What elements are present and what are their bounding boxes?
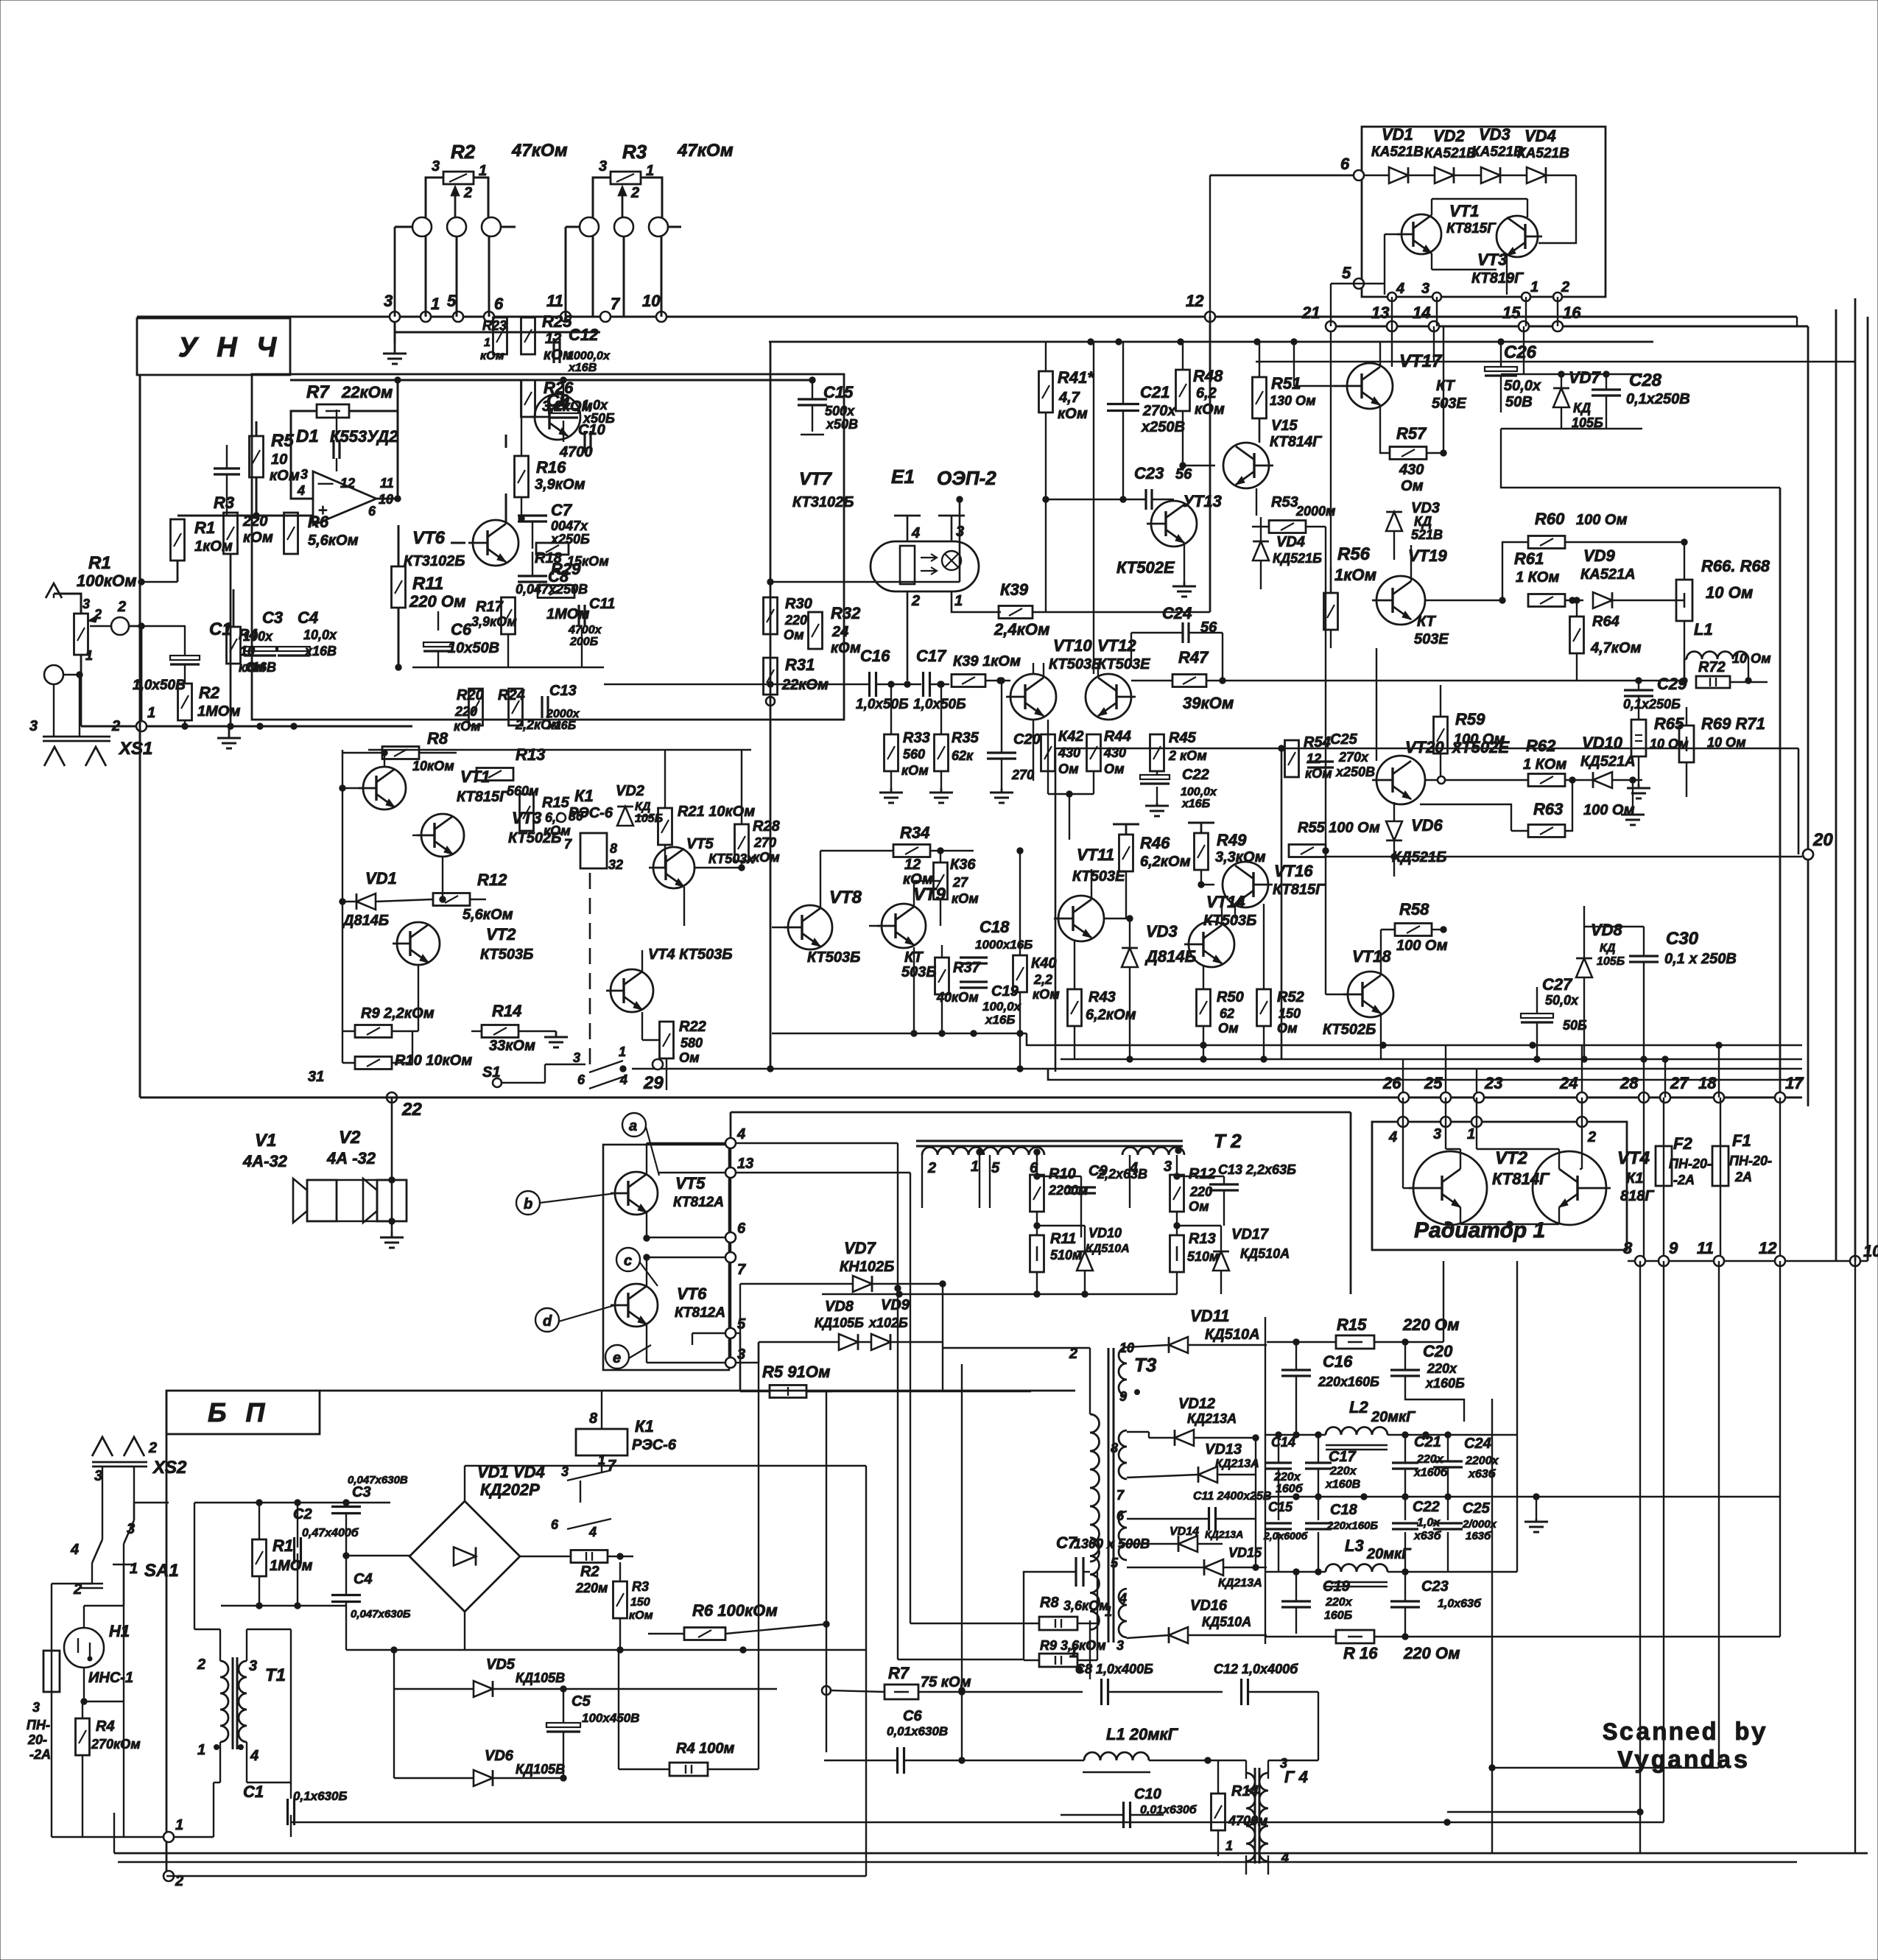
transistor VT15 KT814G <box>1223 443 1269 488</box>
svg-text:18: 18 <box>1698 1074 1717 1092</box>
svg-text:VD14: VD14 <box>1170 1525 1199 1538</box>
node 14 <box>1429 321 1439 331</box>
svg-text:1МОм: 1МОм <box>546 606 590 622</box>
ground near node 3 <box>394 317 396 343</box>
svg-text:0,1х250В: 0,1х250В <box>1626 391 1690 407</box>
node 1 input <box>136 721 147 731</box>
svg-text:16: 16 <box>1563 303 1581 322</box>
wire R2 wiper arrow <box>454 190 457 218</box>
wire vd4 r53 <box>1260 517 1262 541</box>
pointer circle d <box>535 1308 559 1332</box>
diode VD1 D814 <box>356 893 376 910</box>
resistor R16 220 <box>1336 1630 1374 1643</box>
ground filter <box>1536 1497 1537 1519</box>
svg-text:R2: R2 <box>580 1564 599 1580</box>
resistor R6 5.6k <box>284 513 298 554</box>
resistor R3 220k <box>224 513 238 554</box>
svg-text:КА521В: КА521В <box>1424 146 1477 161</box>
svg-text:1: 1 <box>1225 1838 1233 1853</box>
lamp H1 neon <box>64 1628 104 1668</box>
wire r66 col <box>1684 542 1685 580</box>
svg-text:3: 3 <box>384 292 393 310</box>
svg-text:КТ: КТ <box>1417 614 1437 630</box>
wire c6 <box>437 611 439 630</box>
wire UNCH bottom edge <box>140 1097 1802 1099</box>
svg-text:R1: R1 <box>194 519 215 537</box>
svg-text:32: 32 <box>608 857 623 872</box>
svg-text:R7: R7 <box>306 382 330 402</box>
svg-text:3: 3 <box>561 1464 569 1479</box>
svg-text:220: 220 <box>454 704 477 719</box>
wire tone2 <box>563 380 564 409</box>
wire vd5 <box>394 1688 474 1690</box>
svg-text:Ом: Ом <box>1218 1021 1239 1036</box>
resistor R39 2.4k <box>999 606 1033 619</box>
capacitor C3 <box>244 647 276 651</box>
wire vd13 <box>1127 1475 1198 1478</box>
svg-text:R24: R24 <box>498 687 525 703</box>
svg-text:C12 1,0х400б: C12 1,0х400б <box>1214 1662 1298 1676</box>
svg-text:5,6кОм: 5,6кОм <box>308 533 359 549</box>
svg-text:27: 27 <box>1670 1074 1689 1092</box>
wire vt17 base col <box>1333 385 1347 387</box>
wire bridge bottom <box>464 1612 465 1650</box>
svg-text:1000х16Б: 1000х16Б <box>975 938 1033 952</box>
transistor VT20 KT502E <box>1376 756 1425 804</box>
svg-text:КД510А: КД510А <box>1086 1243 1130 1255</box>
node 9 <box>1659 1256 1669 1266</box>
svg-text:6,2: 6,2 <box>1196 385 1217 401</box>
wire sa1 to t1 <box>123 1564 124 1701</box>
node 21 <box>1326 321 1336 331</box>
svg-text:0,047х630В: 0,047х630В <box>348 1474 408 1486</box>
wire l1 r72 <box>1684 658 1687 660</box>
svg-text:29: 29 <box>643 1073 664 1093</box>
svg-text:R14: R14 <box>492 1002 521 1020</box>
svg-text:1: 1 <box>619 1044 626 1059</box>
wire tone rail bottom <box>412 667 604 668</box>
svg-text:C18: C18 <box>1330 1502 1358 1518</box>
svg-text:12: 12 <box>1759 1239 1777 1257</box>
svg-text:28: 28 <box>1619 1074 1639 1092</box>
svg-text:6: 6 <box>737 1220 746 1237</box>
photoresistor in E1 <box>900 546 915 584</box>
svg-text:20мкГ: 20мкГ <box>1371 1409 1416 1425</box>
resistor R29 1M <box>538 586 574 598</box>
node 3 <box>390 312 400 322</box>
svg-text:R13: R13 <box>516 745 545 764</box>
svg-text:КД: КД <box>635 801 651 813</box>
wire c5 right <box>563 1688 777 1690</box>
svg-text:R2: R2 <box>199 684 220 702</box>
wire R2 left <box>426 178 443 218</box>
ground vt13 <box>1184 582 1186 586</box>
capacitor C22 f <box>1392 1522 1418 1524</box>
svg-text:2,4кОм: 2,4кОм <box>993 620 1049 639</box>
resistor R66 R68 10 <box>1676 580 1692 621</box>
svg-text:R29: R29 <box>551 560 581 578</box>
svg-text:1: 1 <box>130 1561 138 1577</box>
svg-text:100х: 100х <box>243 629 273 644</box>
svg-text:270кОм: 270кОм <box>91 1737 141 1752</box>
wire right bus col13 <box>1391 361 1393 367</box>
svg-text:VD2: VD2 <box>1433 127 1466 145</box>
resistor R61 1k <box>1528 594 1565 607</box>
node 11 <box>560 312 571 322</box>
wire ground rail ext <box>1311 1058 1802 1061</box>
wire R1R3 tops <box>177 561 179 582</box>
capacitor opamp top <box>336 458 337 471</box>
wire xs2 down <box>102 1467 103 1539</box>
svg-text:КТ819Г: КТ819Г <box>1471 270 1524 287</box>
wire vt6 col <box>646 1257 647 1286</box>
svg-text:5: 5 <box>737 1316 746 1332</box>
transistor VT3 KT502B <box>421 814 464 857</box>
resistor R15 220 <box>1336 1335 1374 1349</box>
svg-text:100кОм: 100кОм <box>77 572 137 590</box>
wire bottom double 2 <box>118 1861 1797 1863</box>
node 8 <box>1635 1256 1645 1266</box>
diode VD2 KD521V <box>1435 167 1454 183</box>
capacitor C13 <box>541 696 543 718</box>
wire vd7 c28 top <box>1523 326 1524 374</box>
wire l3 <box>1278 1532 1279 1572</box>
svg-text:R58: R58 <box>1399 900 1429 918</box>
svg-text:VD1: VD1 <box>1382 125 1413 144</box>
radiator 1 box <box>1372 1122 1627 1250</box>
node 10b <box>1850 1256 1860 1266</box>
wire psu inner bottom <box>166 1875 866 1877</box>
svg-text:1: 1 <box>175 1817 183 1833</box>
svg-text:VD6: VD6 <box>1411 816 1443 835</box>
svg-text:220: 220 <box>1189 1184 1212 1199</box>
svg-text:3: 3 <box>94 1468 102 1484</box>
svg-text:Ом: Ом <box>1058 762 1079 776</box>
wire pointers <box>646 1127 659 1176</box>
svg-text:56: 56 <box>1175 466 1192 482</box>
svg-text:1 КОм: 1 КОм <box>1523 756 1567 773</box>
capacitor C9 <box>1066 1186 1096 1188</box>
svg-text:b: b <box>524 1196 532 1212</box>
svg-text:XS1: XS1 <box>118 739 152 759</box>
svg-text:Ом: Ом <box>784 628 804 642</box>
svg-text:0047х: 0047х <box>551 519 588 533</box>
capacitor C8 <box>518 575 547 577</box>
svg-text:C15: C15 <box>1268 1500 1293 1514</box>
wire vt cluster bottoms <box>1203 966 1204 989</box>
svg-text:2200х: 2200х <box>1465 1455 1499 1467</box>
svg-text:1: 1 <box>431 295 440 313</box>
wire opamp out up <box>397 380 399 499</box>
resistor R49 3.3k <box>1195 833 1209 870</box>
svg-text:C1: C1 <box>243 1782 264 1801</box>
svg-text:3: 3 <box>300 467 308 482</box>
svg-text:х16В: х16В <box>304 644 337 658</box>
capacitor C1 <box>170 656 200 660</box>
transistor VT9 KT503B <box>882 904 926 948</box>
svg-text:R15: R15 <box>1337 1316 1367 1334</box>
svg-text:К40: К40 <box>1031 955 1057 972</box>
resistor R11 220 <box>392 566 406 608</box>
svg-text:Ом: Ом <box>1104 762 1125 776</box>
inductor L1 psu <box>1084 1752 1149 1760</box>
wire r51 col down <box>1259 418 1260 443</box>
svg-text:7: 7 <box>564 837 572 851</box>
diode VD4 KD521V <box>1527 167 1546 183</box>
svg-text:1 КОм: 1 КОм <box>1516 569 1560 586</box>
wire r39 to node12 line <box>1033 611 1210 614</box>
svg-text:VT20: VT20 <box>1405 738 1444 756</box>
svg-text:4: 4 <box>588 1525 597 1539</box>
node 22 <box>387 1092 397 1103</box>
svg-text:ИНС-1: ИНС-1 <box>88 1670 133 1686</box>
svg-text:VD4: VD4 <box>1276 534 1305 550</box>
svg-text:R7: R7 <box>888 1664 910 1682</box>
wire c11 <box>1127 1518 1209 1520</box>
svg-text:VD7: VD7 <box>844 1239 877 1257</box>
node 5 <box>453 312 463 322</box>
svg-text:0,01х630В: 0,01х630В <box>887 1724 948 1738</box>
svg-text:C20: C20 <box>1423 1342 1453 1360</box>
svg-text:270х: 270х <box>1338 750 1369 765</box>
svg-text:C26: C26 <box>1504 343 1537 362</box>
transformer T2 core <box>916 1140 1183 1142</box>
wire vt18 <box>1326 994 1348 995</box>
capacitor C20 <box>987 751 1016 754</box>
svg-text:1кОм: 1кОм <box>194 538 233 555</box>
capacitor C4 <box>278 647 310 651</box>
wire node11 gang <box>565 227 567 317</box>
wire c12psu <box>1248 1691 1318 1693</box>
svg-text:R1: R1 <box>272 1536 293 1555</box>
wire t2 w1 <box>921 1155 923 1208</box>
svg-text:F1: F1 <box>1732 1131 1751 1150</box>
svg-text:3: 3 <box>573 1050 580 1065</box>
wire t2 w3 <box>1129 1155 1130 1208</box>
wire l2 <box>1265 1434 1326 1436</box>
svg-text:11: 11 <box>1697 1239 1714 1257</box>
svg-text:КД213А: КД213А <box>1187 1411 1237 1426</box>
capacitor C12 <box>552 338 555 363</box>
svg-text:L3: L3 <box>1345 1536 1364 1555</box>
svg-text:C20: C20 <box>1013 731 1041 748</box>
wire unch bottom to psu <box>136 1113 138 1114</box>
wire vt15 <box>1259 418 1260 443</box>
svg-text:х50В: х50В <box>826 417 858 432</box>
transistor VT16 KT815G <box>1223 862 1268 907</box>
svg-text:Vygandas: Vygandas <box>1617 1748 1749 1776</box>
svg-text:R45: R45 <box>1169 730 1197 746</box>
svg-text:1300 х 500В: 1300 х 500В <box>1074 1536 1150 1551</box>
svg-text:C17: C17 <box>1329 1449 1357 1465</box>
capacitor C21 <box>1107 403 1139 405</box>
svg-text:160Б: 160Б <box>1324 1609 1352 1622</box>
svg-text:2000х: 2000х <box>546 708 580 720</box>
resistor R44 430 <box>1087 734 1101 771</box>
svg-text:S1: S1 <box>482 1064 500 1081</box>
svg-text:Ом: Ом <box>1189 1199 1209 1214</box>
wire vd56 left col <box>393 1650 395 1778</box>
svg-text:9: 9 <box>1669 1239 1678 1257</box>
svg-text:163б: 163б <box>1466 1530 1491 1542</box>
svg-text:VD5: VD5 <box>486 1657 516 1673</box>
wire vt11 column <box>1069 809 1070 840</box>
relay contacts psu <box>567 1470 611 1480</box>
wire r3psu <box>619 1562 621 1581</box>
svg-text:220х: 220х <box>1416 1453 1444 1466</box>
svg-text:R 16: R 16 <box>1343 1644 1378 1662</box>
svg-text:3: 3 <box>127 1521 135 1537</box>
resistor R52 150 <box>1257 989 1271 1026</box>
switch SA1 <box>92 1539 102 1563</box>
svg-text:V15: V15 <box>1271 418 1298 434</box>
transistor VT18 KT502B <box>1348 972 1393 1017</box>
svg-text:C15: C15 <box>823 383 854 401</box>
wire psu top edge <box>320 1390 1075 1392</box>
svg-text:К39: К39 <box>1000 580 1029 599</box>
svg-text:R4 100м: R4 100м <box>676 1741 734 1757</box>
fuse F3 psu <box>43 1651 60 1692</box>
svg-text:х16В: х16В <box>244 660 276 675</box>
svg-text:КТ815Г: КТ815Г <box>1446 221 1497 236</box>
svg-text:21: 21 <box>1301 303 1320 322</box>
wire speakers <box>391 1097 393 1232</box>
wire psu mid rail <box>194 1502 326 1503</box>
diode VD13 KD213A <box>1198 1467 1217 1483</box>
capacitor C19 <box>960 980 988 983</box>
svg-text:818Г: 818Г <box>1620 1188 1655 1204</box>
resistor R39 1k <box>952 675 985 687</box>
svg-text:КА521В: КА521В <box>1371 144 1424 160</box>
potentiometer R1 100k <box>74 614 88 655</box>
diode VD8 KD105B <box>1576 958 1592 977</box>
wire tone4 <box>532 552 533 576</box>
capacitor C15 f <box>1265 1522 1292 1524</box>
svg-text:R32: R32 <box>831 604 861 622</box>
svg-text:Scanned by: Scanned by <box>1603 1720 1768 1748</box>
resistor R13 510 <box>1170 1235 1184 1272</box>
svg-text:х63б: х63б <box>1413 1530 1442 1542</box>
svg-text:C10: C10 <box>578 422 605 438</box>
resistor R22 580 <box>660 1022 674 1058</box>
wire rail y1016 <box>1055 748 1798 750</box>
svg-text:L1 20мкГ: L1 20мкГ <box>1106 1725 1179 1743</box>
diode VD9 KD521A <box>1593 592 1612 608</box>
svg-text:4: 4 <box>1119 1591 1127 1606</box>
svg-text:0,47х400б: 0,47х400б <box>302 1527 359 1539</box>
resistor R9 2.2k <box>355 1025 392 1038</box>
svg-text:2: 2 <box>630 185 639 201</box>
wire r63 <box>1565 780 1572 831</box>
svg-text:0,1х250Б: 0,1х250Б <box>1623 697 1681 712</box>
wire R1 top <box>54 594 81 614</box>
resistor R41 4.7k <box>1039 371 1053 412</box>
svg-text:47кОм: 47кОм <box>677 141 734 161</box>
svg-text:VT6: VT6 <box>412 528 446 548</box>
wire r63 left connect <box>1420 804 1511 831</box>
wire vt17 <box>1379 342 1381 367</box>
svg-text:1МОм: 1МОм <box>197 703 241 720</box>
svg-text:C4: C4 <box>298 608 318 627</box>
wire c21 bottom <box>1122 411 1124 499</box>
svg-text:R48: R48 <box>1193 367 1223 385</box>
transistor VT2 KT814G <box>1413 1151 1487 1225</box>
wire R1 bottom <box>80 655 82 726</box>
svg-text:R5: R5 <box>271 431 294 451</box>
diode VD7 KD105B zener <box>1553 388 1569 407</box>
capacitor C23 f <box>1390 1600 1420 1602</box>
svg-text:R56: R56 <box>1337 544 1371 564</box>
node 16 <box>1552 321 1563 331</box>
E1 pin3 <box>951 516 953 541</box>
capacitor C24 f <box>1433 1460 1463 1462</box>
svg-text:3,9кОм: 3,9кОм <box>471 614 517 629</box>
svg-text:C8 1,0х400Б: C8 1,0х400Б <box>1075 1662 1153 1676</box>
svg-text:КД213А: КД213А <box>1205 1528 1243 1540</box>
wire out rail <box>290 379 812 382</box>
resistor R23 1k <box>493 317 507 354</box>
capacitor C17 <box>922 672 924 697</box>
resistor R2 1M <box>178 684 192 720</box>
svg-text:ПН-: ПН- <box>27 1718 50 1732</box>
svg-text:У Н Ч: У Н Ч <box>178 332 282 363</box>
svg-text:F2: F2 <box>1673 1134 1692 1153</box>
wire tone3 <box>532 521 533 549</box>
wire vd7 c28 bottom <box>1561 407 1562 429</box>
wire r2psu <box>567 1556 571 1557</box>
wire vt6 vt7 <box>451 542 465 544</box>
svg-text:R57: R57 <box>1396 424 1427 443</box>
resistor R6 100k <box>684 1628 725 1640</box>
svg-text:-2А: -2А <box>1673 1173 1695 1187</box>
wire plus input <box>256 515 313 517</box>
svg-text:C3: C3 <box>352 1484 371 1500</box>
resistor R8 10k <box>382 747 419 759</box>
svg-text:VD2: VD2 <box>616 783 644 799</box>
fuse F2 <box>1656 1146 1672 1186</box>
svg-text:3: 3 <box>1116 1638 1124 1653</box>
svg-text:3,9кОм: 3,9кОм <box>535 477 585 493</box>
wire c9 <box>1080 1176 1082 1187</box>
wire opamp box outline <box>252 374 844 720</box>
resistor R3 150k psu <box>613 1581 627 1618</box>
bridge rectifier VD1-VD4 <box>409 1501 520 1612</box>
svg-text:1000,0х: 1000,0х <box>567 350 611 362</box>
svg-text:5: 5 <box>1342 264 1351 282</box>
svg-text:6: 6 <box>1340 155 1350 173</box>
wire protection box top <box>368 749 751 751</box>
svg-text:a: a <box>629 1118 637 1134</box>
wire node21 drop <box>1330 331 1332 593</box>
svg-text:150: 150 <box>630 1596 650 1609</box>
transistor VT8 KT503B <box>788 905 832 949</box>
svg-text:R66. R68: R66. R68 <box>1701 557 1770 575</box>
resistor R64 4.7k <box>1570 617 1584 653</box>
svg-text:3: 3 <box>29 718 38 734</box>
svg-text:C12: C12 <box>569 326 599 344</box>
wire top bus lower stub <box>395 331 600 334</box>
diode VD16 KD510A <box>1169 1627 1188 1643</box>
svg-text:R13: R13 <box>1189 1231 1216 1247</box>
resistor R35 62k <box>935 734 949 771</box>
svg-text:VT3: VT3 <box>1477 250 1507 269</box>
svg-text:4,7: 4,7 <box>1058 390 1080 406</box>
svg-text:R31: R31 <box>785 656 815 674</box>
wire h1 <box>83 1606 85 1628</box>
wire C1 <box>129 625 186 627</box>
resistor R65 10 <box>1631 720 1646 756</box>
svg-text:C10: C10 <box>1134 1786 1161 1802</box>
